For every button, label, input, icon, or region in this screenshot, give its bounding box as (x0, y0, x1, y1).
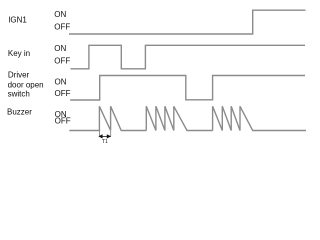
signal label Buzzer (7, 107, 32, 116)
IGN1 OFF level label (54, 23, 70, 32)
period measurement extension ticks (99, 131, 110, 137)
svg-text:ON: ON (54, 44, 66, 53)
Driver door open switch waveform: ON pulse, dip, then ON (70, 76, 305, 101)
signal label Key in (8, 49, 30, 58)
svg-text:Buzzer: Buzzer (7, 107, 32, 116)
IGN1 waveform: OFF until rising edge at x=252.7 then ON (69, 10, 306, 34)
IGN1 ON level label (54, 10, 66, 19)
Key in ON level label (54, 44, 66, 53)
Buzzer waveform burst 3: four sawtooth pulses then OFF (213, 106, 306, 130)
svg-text:Key in: Key in (8, 49, 30, 58)
svg-text:switch: switch (8, 90, 30, 99)
Buzzer ON level label (55, 110, 67, 119)
Driver door OFF level label (55, 89, 71, 98)
Driver door ON level label (55, 78, 67, 87)
Buzzer waveform burst 2: four sawtooth pulses (146, 106, 212, 130)
signal label Driver door open switch (3 lines) (8, 71, 44, 99)
Key in waveform: two pulses, second stays ON (71, 45, 306, 69)
Buzzer waveform burst 1: two sawtooth pulses (69, 106, 146, 130)
svg-text:ON: ON (55, 78, 67, 87)
svg-text:ON: ON (54, 10, 66, 19)
svg-text:Driver: Driver (8, 71, 30, 80)
Buzzer OFF level label (55, 116, 71, 125)
label T1 (102, 139, 108, 145)
svg-text:door open: door open (8, 81, 44, 90)
period double arrow T1 (98, 134, 111, 138)
svg-text:OFF: OFF (55, 89, 71, 98)
Key in OFF level label (54, 56, 70, 65)
svg-text:IGN1: IGN1 (8, 15, 27, 24)
svg-text:OFF: OFF (55, 116, 71, 125)
svg-text:OFF: OFF (54, 23, 70, 32)
svg-text:OFF: OFF (54, 56, 70, 65)
signal label IGN1 (8, 15, 27, 24)
svg-text:T1: T1 (102, 139, 108, 145)
